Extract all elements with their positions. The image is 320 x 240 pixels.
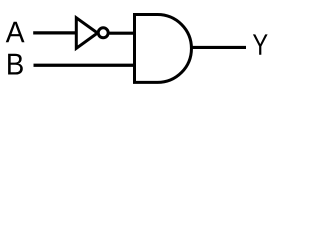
wire B to AND gate bottom input bbox=[34, 64, 137, 67]
wire inverter to AND gate top input bbox=[110, 32, 137, 35]
node B (input label) bbox=[8, 54, 23, 75]
node Y (output label) bbox=[253, 34, 268, 54]
wire A to inverter bbox=[33, 31, 77, 34]
AND gate U2 body bbox=[135, 15, 192, 83]
wire AND gate output to Y bbox=[191, 46, 246, 49]
node A (input label) bbox=[6, 22, 25, 42]
inverter U1 triangle bbox=[76, 18, 97, 49]
inverter U1 bubble bbox=[98, 28, 108, 38]
